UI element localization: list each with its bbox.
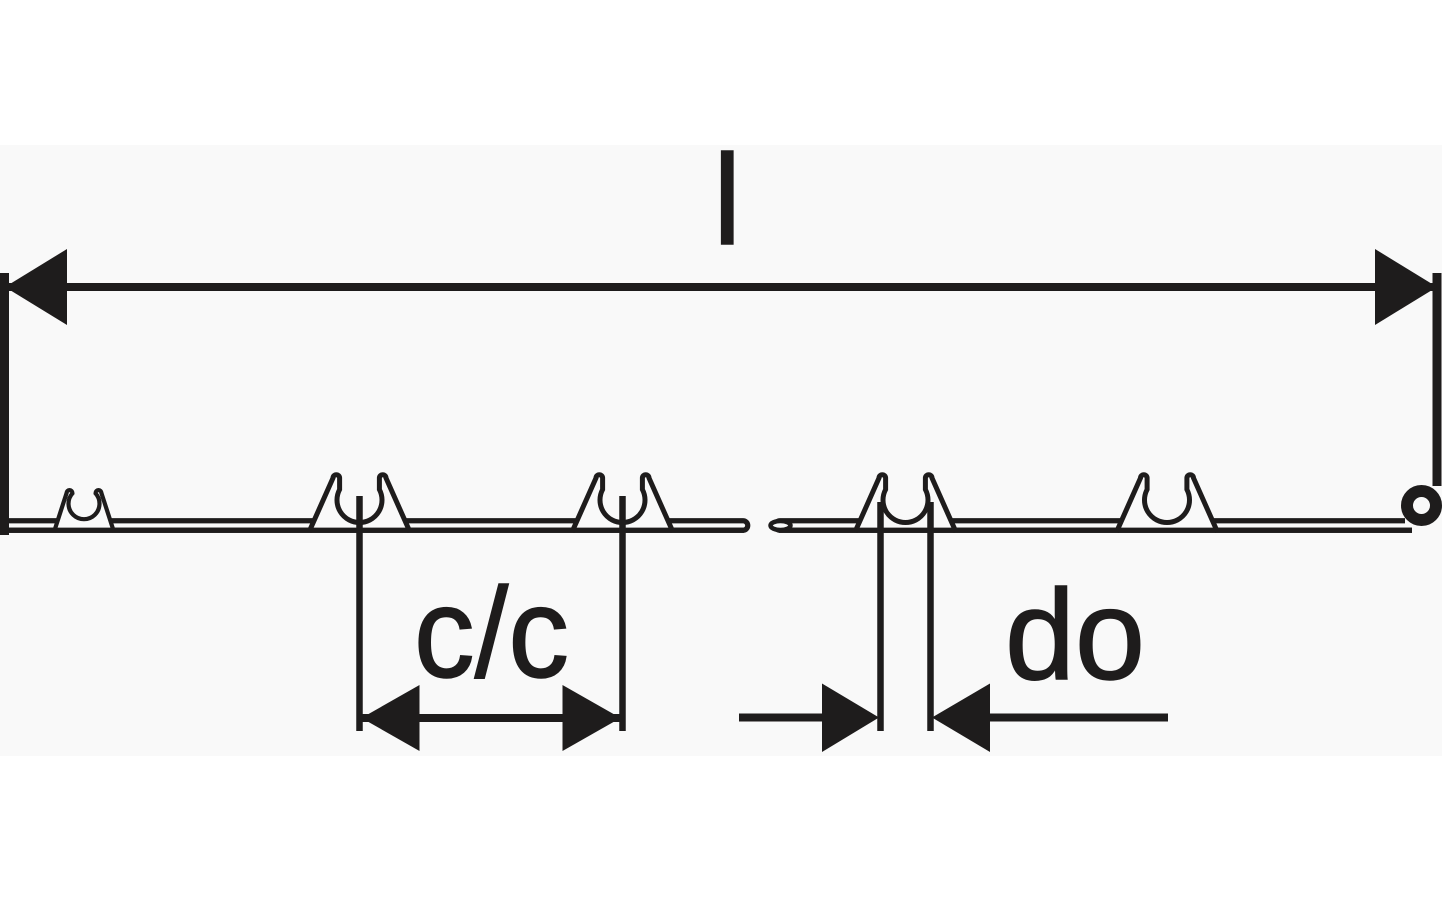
dimension line l (9, 283, 1433, 291)
clip K2 (336, 476, 384, 524)
svg-text:c/c: c/c (414, 562, 569, 705)
do leader left (739, 714, 822, 722)
rail bottom line A (0, 528, 744, 533)
c/c arrow right (563, 685, 621, 751)
rail segment B top line (775, 521, 1412, 531)
extension line right (l) (1433, 273, 1442, 486)
c/c arrow left (362, 685, 420, 751)
c/c extension line right (619, 496, 626, 731)
rail break curl (771, 521, 791, 530)
svg-text:do: do (1005, 564, 1145, 707)
arrow l right (1375, 249, 1437, 325)
clip K4 (882, 476, 930, 524)
do extension line left (877, 502, 884, 731)
extension line left (l) (0, 273, 9, 535)
do arrow left (822, 684, 879, 753)
arrow l left (5, 249, 67, 325)
c/c dimension line (360, 714, 623, 722)
do arrow right (932, 684, 990, 753)
rail end circle (1407, 491, 1436, 520)
do leader right (990, 714, 1168, 722)
rail segment A top line (4, 521, 748, 531)
clip K5 (1143, 476, 1191, 524)
clip K1 small (68, 488, 100, 520)
do extension line right (927, 502, 934, 731)
c/c extension line left (356, 496, 363, 731)
svg-text:l: l (713, 129, 741, 272)
rail bottom line B (779, 528, 1412, 533)
clip K3 (599, 476, 647, 524)
